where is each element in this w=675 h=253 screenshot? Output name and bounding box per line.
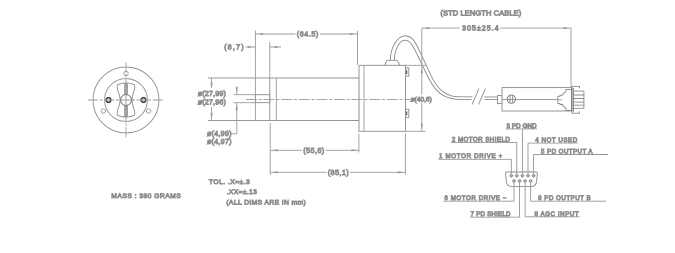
motor body outline <box>270 78 359 121</box>
pin 3 <box>521 174 524 177</box>
pin 5 <box>532 174 535 177</box>
inline connector body <box>502 88 572 111</box>
mounting hole lower-right <box>146 109 150 113</box>
pin 8 <box>524 180 527 183</box>
pin 9 <box>529 180 532 183</box>
svg-text:1 MOTOR DRIVE +: 1 MOTOR DRIVE + <box>439 153 503 160</box>
svg-text:(ALL DIMS ARE IN mm): (ALL DIMS ARE IN mm) <box>226 199 305 206</box>
svg-text:7 PD SHIELD: 7 PD SHIELD <box>471 211 512 218</box>
front plate line <box>275 78 277 121</box>
dimension 305 +-25.4 <box>422 27 571 88</box>
pin 7 <box>518 180 521 183</box>
cable inner line <box>394 40 471 99</box>
dimension diameter 40,6 <box>406 65 426 131</box>
dimension (85,1) <box>270 134 405 175</box>
pin 2 <box>515 174 518 177</box>
cable break symbol <box>472 89 486 105</box>
connector crimp cap top <box>572 86 580 88</box>
screw left <box>106 98 111 103</box>
dimension diameter 27,99 / 27,96 <box>208 78 270 121</box>
connector cable stub <box>498 96 503 104</box>
dimension (8,7) <box>246 42 282 78</box>
svg-text:MASS : 380 GRAMS: MASS : 380 GRAMS <box>111 193 181 200</box>
cable outer line <box>390 36 472 97</box>
wire pin6 label <box>444 181 515 201</box>
svg-text:ø(4,97): ø(4,97) <box>207 137 232 146</box>
wire pin4 label <box>528 143 578 176</box>
head box bump lower <box>406 109 409 117</box>
pin 6 <box>513 180 516 183</box>
connector plug face <box>558 89 572 110</box>
connector crimp plate <box>572 88 573 112</box>
wire pin5 label <box>534 155 608 176</box>
dimension (55,8) <box>270 123 359 175</box>
dimension diameter 4,99 / 4,97 <box>232 87 256 134</box>
front view inner circle <box>105 79 148 122</box>
svg-text:(85,1): (85,1) <box>328 168 349 177</box>
front view vertical centerline <box>125 63 127 138</box>
svg-text:(STD LENGTH CABLE): (STD LENGTH CABLE) <box>440 8 521 17</box>
rotor gray bar <box>124 83 128 118</box>
wire pin1 label <box>439 159 512 175</box>
connector screw <box>507 95 515 103</box>
cable right segment <box>485 97 498 100</box>
svg-text:5 PD OUTPUT A: 5 PD OUTPUT A <box>541 149 593 156</box>
svg-text:9 PD OUTPUT B: 9 PD OUTPUT B <box>538 195 591 202</box>
connector crimp cap bottom <box>572 111 580 113</box>
wire pin8 label <box>525 181 580 217</box>
connector centerline <box>502 99 558 101</box>
svg-text:(8,7): (8,7) <box>224 42 244 51</box>
pinout D-sub connector <box>506 172 538 186</box>
svg-text:6 MOTOR DRIVE −: 6 MOTOR DRIVE − <box>444 195 506 202</box>
svg-text:2 MOTOR SHIELD: 2 MOTOR SHIELD <box>452 136 510 143</box>
wire pin9 label <box>531 181 606 201</box>
connector plug face centerline tick <box>558 99 563 101</box>
svg-text:3 PD GND: 3 PD GND <box>507 123 538 130</box>
svg-text:.XX=±.13: .XX=±.13 <box>227 189 257 196</box>
sensor head box <box>359 65 406 131</box>
wire pin7 label <box>470 181 520 217</box>
svg-text:(55,8): (55,8) <box>303 146 324 155</box>
head box bump upper <box>406 68 409 76</box>
svg-text:ø(40,6): ø(40,6) <box>411 96 432 103</box>
side view centerline <box>246 98 410 100</box>
front view horizontal centerline <box>88 99 164 101</box>
svg-text:8 AGC INPUT: 8 AGC INPUT <box>535 211 579 218</box>
mounting hole lower-left <box>101 109 105 113</box>
svg-text:TOL. .X=±.3: TOL. .X=±.3 <box>209 179 250 186</box>
front view outer circle <box>93 67 159 133</box>
connector crimp teeth <box>573 91 584 108</box>
svg-text:ø(27,96): ø(27,96) <box>198 97 226 106</box>
mounting hole top <box>124 71 128 75</box>
wire pin3 label <box>506 129 537 176</box>
svg-text:4 NOT USED: 4 NOT USED <box>535 137 578 144</box>
dimension (64.5) <box>255 31 357 121</box>
side view shaft <box>255 95 269 103</box>
head box inner lid line <box>363 65 365 131</box>
pin 1 <box>510 174 513 177</box>
cable gland <box>385 60 400 65</box>
shaft center hole <box>121 95 132 106</box>
svg-text:(64.5): (64.5) <box>297 30 319 39</box>
svg-text:305±25.4: 305±25.4 <box>462 24 499 33</box>
rotor bone cutout <box>117 83 135 117</box>
wire pin2 label <box>451 142 517 175</box>
screw right <box>141 98 146 103</box>
pin 4 <box>527 174 530 177</box>
